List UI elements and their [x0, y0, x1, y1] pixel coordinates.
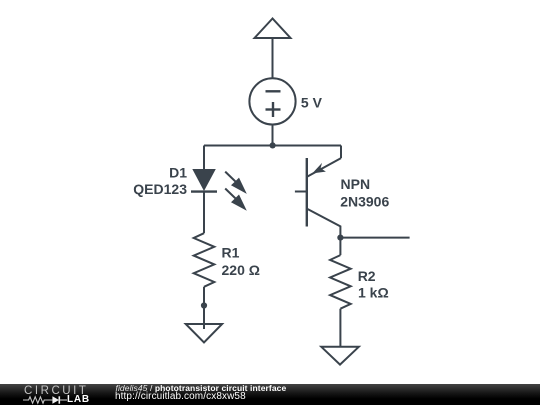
- wire node to R2: [339, 238, 341, 256]
- resistor R2: [330, 255, 351, 309]
- wire R1 to ground: [203, 287, 205, 329]
- logo LAB text: [67, 395, 90, 405]
- ground symbol left: [186, 324, 222, 343]
- svg-text:NPN: NPN: [341, 176, 371, 192]
- ground symbol right: [321, 347, 359, 365]
- wire rail to LED: [203, 146, 205, 170]
- svg-text:D1: D1: [169, 164, 187, 180]
- V1 plus sign: [266, 108, 281, 110]
- node dot collector: [337, 235, 343, 241]
- VCC power symbol: [255, 19, 291, 39]
- svg-text:QED123: QED123: [133, 181, 187, 197]
- footer line 1: [116, 384, 287, 393]
- node dot above ground: [201, 302, 207, 308]
- node junction dot: [270, 142, 276, 148]
- svg-text:1 kΩ: 1 kΩ: [358, 285, 389, 301]
- logo resistor-diode symbol: [23, 395, 73, 405]
- wire VCC to V1: [272, 38, 274, 78]
- wire output to right: [340, 237, 409, 239]
- transistor Q1 emitter arrowhead: [312, 163, 326, 174]
- LED light arrow 2: [225, 189, 247, 211]
- LED D1 cathode bar: [191, 190, 217, 192]
- footer line 2: [115, 392, 246, 402]
- svg-text:5 V: 5 V: [301, 95, 323, 111]
- transistor Q1 collector: [307, 209, 341, 238]
- voltage source V1: [249, 78, 295, 124]
- wire R2 to ground: [339, 309, 341, 347]
- LED D1 triangle: [192, 169, 216, 191]
- transistor Q1 base bar: [306, 158, 308, 227]
- svg-text:R2: R2: [358, 268, 376, 284]
- svg-text:2N3906: 2N3906: [340, 193, 389, 209]
- wire LED to R1: [203, 192, 205, 234]
- resistor R1: [194, 233, 215, 287]
- transistor Q1 emitter: [307, 158, 341, 177]
- LED light arrow 1: [225, 172, 247, 194]
- V1 minus sign: [266, 90, 281, 92]
- footer bar: [0, 384, 540, 405]
- CircuitLab logo wordmark CIRCUIT: [24, 386, 89, 398]
- svg-text:220 Ω: 220 Ω: [222, 262, 260, 278]
- wire top rail: [204, 145, 341, 147]
- wire V1 to rail: [272, 125, 274, 146]
- wire rail to Q1 emitter corner: [340, 146, 342, 159]
- svg-text:R1: R1: [222, 245, 240, 261]
- transistor Q1 base stub: [295, 191, 307, 193]
